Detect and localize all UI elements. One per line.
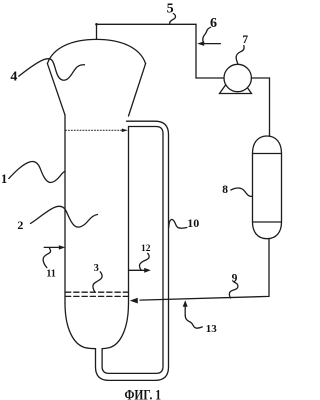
arrow 12 (129, 269, 145, 271)
leader 13 (185, 316, 202, 329)
leader 5 (170, 14, 176, 25)
leader 8 (231, 188, 252, 196)
svg-text:1: 1 (1, 172, 7, 186)
arrow 6 (204, 43, 221, 45)
column 1 right shoulder (129, 64, 146, 116)
leader 10 (169, 219, 187, 228)
leader 4 (19, 59, 85, 81)
recycle pipe 10 inner line (102, 127, 163, 374)
leader 2 (31, 206, 98, 227)
svg-text:8: 8 (222, 184, 228, 196)
leader 6 (203, 27, 211, 43)
svg-text:6: 6 (210, 16, 217, 31)
svg-text:2: 2 (17, 218, 23, 232)
vessel 8 body (253, 136, 282, 239)
top pipe down to pump (195, 24, 197, 78)
pump 7 circle (224, 64, 251, 91)
vessel 8 weld lines (253, 154, 282, 223)
top pipe horizontal (97, 23, 197, 25)
leader 9 (229, 282, 238, 298)
svg-text:10: 10 (187, 216, 199, 230)
arrow 11 (44, 246, 58, 248)
svg-text:ФИГ. 1: ФИГ. 1 (125, 388, 162, 400)
column 1 bottom right (102, 303, 128, 349)
svg-text:4: 4 (10, 70, 17, 85)
column 1 bottom left (65, 303, 96, 349)
svg-text:3: 3 (94, 263, 99, 274)
pipe pump to vessel 8 (251, 78, 269, 136)
recycle pipe 10 outer line (96, 121, 169, 380)
svg-text:13: 13 (206, 323, 218, 335)
column 1 left wall (64, 115, 66, 303)
column 1 dome (47, 39, 145, 63)
arrow 13 (184, 306, 186, 315)
leader 1 (9, 161, 65, 182)
leader 12 (139, 253, 149, 269)
column 1 right wall (128, 127, 130, 304)
pipe into pump (196, 77, 224, 79)
dotted line arrow (122, 129, 128, 133)
pipe 9 entry arrowhead (130, 298, 138, 304)
svg-text:12: 12 (141, 244, 151, 254)
svg-text:5: 5 (167, 2, 174, 17)
svg-text:7: 7 (242, 34, 248, 46)
leader 7 (236, 46, 244, 64)
top pipe 5: stub from dome (96, 24, 98, 39)
top pipe junction dot (95, 23, 98, 26)
dotted level line (66, 129, 123, 131)
leader 11 (43, 248, 51, 268)
pump 7 base (220, 71, 252, 94)
svg-text:11: 11 (46, 268, 55, 279)
column 1 left shoulder (47, 64, 65, 115)
leader 3 (93, 272, 102, 292)
dashed distributor 3 (66, 292, 129, 296)
svg-text:9: 9 (232, 273, 238, 285)
pipe 9 from vessel bottom (140, 239, 269, 300)
